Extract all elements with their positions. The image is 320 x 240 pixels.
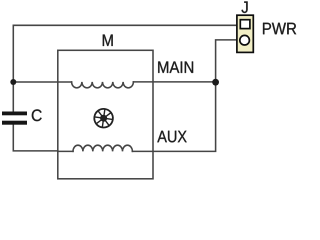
capacitor C top plate — [2, 112, 27, 116]
connector J body — [237, 15, 253, 52]
rotor fan symbol — [93, 108, 114, 129]
wire left rail lower (capacitor to bottom corner) — [13, 124, 58, 151]
connector J pin 2 circle — [240, 35, 250, 45]
capacitor C bottom plate — [2, 121, 27, 125]
label MAIN — [158, 62, 193, 73]
label M — [103, 35, 113, 46]
label AUX — [157, 131, 186, 143]
wire AUX left lead — [58, 150, 73, 152]
wire AUX right lead to right vertical — [132, 82, 215, 151]
connector J pin 1 square — [240, 20, 250, 29]
wire MAIN right lead to node B — [133, 81, 215, 83]
inductor AUX winding — [73, 145, 132, 151]
label PWR — [263, 23, 296, 34]
motor enclosure box M — [58, 50, 153, 179]
wire node B up to connector pin 2 — [216, 40, 237, 82]
wire top bus from left rail to connector pin 1 — [13, 25, 236, 82]
node B junction dot (MAIN / AUX / PWR) — [212, 79, 219, 86]
label C — [32, 109, 42, 121]
label J — [242, 1, 248, 13]
node A junction dot (left rail / MAIN) — [10, 79, 16, 85]
wire left rail upper (node A to capacitor) — [12, 82, 14, 112]
wire MAIN left lead from node A — [13, 81, 71, 83]
inductor MAIN winding — [72, 82, 134, 88]
